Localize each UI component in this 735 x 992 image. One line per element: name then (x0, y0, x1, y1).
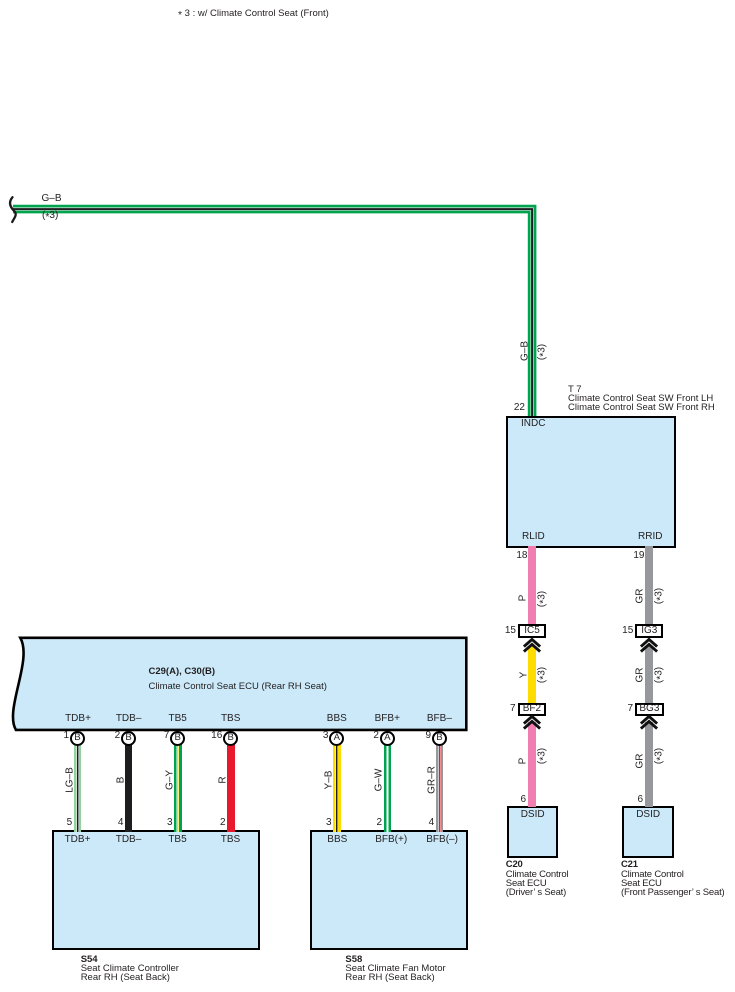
node B pin9 (432, 731, 447, 746)
S54 box (52, 830, 260, 950)
label (*3) (vertical wire) (537, 343, 546, 359)
label GR (635, 668, 644, 683)
wire P from BF2 to C20 (528, 722, 536, 807)
label G-W (375, 769, 384, 792)
label TB5 (C29) (158, 714, 198, 723)
label G-Y (165, 770, 174, 790)
S58 caption (345, 955, 445, 983)
label INDC (521, 419, 545, 428)
connector BF2 (518, 703, 547, 716)
junction chevron below BF2 (522, 714, 542, 732)
wire LG-B (74, 740, 82, 832)
label Y (519, 672, 528, 679)
pin 1 (47, 731, 69, 740)
node B pin1 (70, 731, 85, 746)
label GR-R (427, 766, 436, 794)
label BFB+ (C29) (367, 714, 407, 723)
wire R (227, 740, 235, 832)
wire GR from BG3 to C21 (645, 722, 653, 807)
pin 5 (S54) (50, 818, 72, 827)
label (*3) (537, 590, 546, 606)
connector BG3 (635, 703, 664, 716)
label BBS (C29) (317, 714, 357, 723)
C29/C30 subtitle (149, 682, 327, 691)
wire Y-B (333, 740, 341, 832)
pin 7 (147, 731, 169, 740)
C29/C30 title (149, 667, 216, 676)
label (*3) (654, 748, 663, 764)
pin 9 (409, 731, 431, 740)
pin 3 (S58) (310, 818, 332, 827)
wire GR from RRID to IG3 (645, 546, 653, 625)
pin 2 (S58) (360, 818, 382, 827)
pin 7 (BG3) (611, 704, 633, 713)
node B pin7 (170, 731, 185, 746)
label GR (635, 754, 644, 769)
node A pin2 (380, 731, 395, 746)
pin 16 (200, 731, 222, 740)
ECU C29/C30 box (wavy left edge) (0, 630, 480, 740)
connector IG3 (635, 624, 663, 638)
connector T7 title (568, 385, 715, 412)
label DSID (C20) (507, 810, 558, 819)
label LG-B (65, 767, 74, 793)
ECU C21 box (622, 806, 674, 858)
label GR (635, 588, 644, 603)
label TB5 (S54) (158, 835, 198, 844)
label TDB- (S54) (109, 835, 149, 844)
label TDB- (C29) (109, 714, 149, 723)
wire Y from IC5 to BF2 (528, 646, 537, 704)
connector IC5 (518, 624, 546, 638)
label B (116, 777, 125, 784)
pin 4 (S58) (412, 818, 434, 827)
label TBS (C29) (211, 714, 251, 723)
pin 15 (IC5) (494, 626, 516, 635)
pin 19 (623, 551, 645, 560)
pin 18 (506, 551, 528, 560)
break symbol (wire continues) (0, 185, 40, 235)
label (*3) (654, 666, 663, 682)
pin 2 (357, 731, 379, 740)
node A pin3 (329, 731, 344, 746)
label R (218, 777, 227, 784)
label RLID (522, 532, 545, 541)
label G-B (vertical wire) (520, 340, 529, 360)
node B pin16 (223, 731, 238, 746)
pin 15 (IG3) (611, 626, 633, 635)
pin 4 (S54) (101, 818, 123, 827)
junction chevron below IC5 (522, 637, 542, 655)
label (*3) (537, 666, 546, 682)
label G-B (horizontal) (42, 194, 62, 203)
junction chevron below IG3 (639, 637, 659, 655)
label TBS (S54) (211, 835, 251, 844)
wire GR from IG3 to BG3 (645, 646, 653, 704)
label (*3) (537, 748, 546, 764)
label P (519, 758, 528, 765)
junction chevron below BG3 (639, 714, 659, 732)
C21 caption (621, 860, 725, 897)
pin 2 (S54) (204, 818, 226, 827)
label TDB+ (S54) (58, 835, 98, 844)
node B pin2 (121, 731, 136, 746)
note w/ Climate Control Seat (Front) (178, 9, 329, 18)
C20 caption (506, 860, 569, 897)
pin 6 (C20) (504, 795, 526, 804)
label DSID (C21) (622, 810, 674, 819)
label RRID (638, 532, 662, 541)
pin 7 (BF2) (494, 704, 516, 713)
wire P from RLID to IC5 (528, 546, 536, 625)
pin 22 (503, 403, 525, 412)
pin 2 (98, 731, 120, 740)
S58 box (310, 830, 468, 950)
label (*3) (654, 588, 663, 604)
ECU C20 box (507, 806, 558, 858)
label TDB+ (C29) (58, 714, 98, 723)
wire B (125, 740, 133, 832)
label P (518, 595, 527, 602)
pin 3 (306, 731, 328, 740)
pin 3 (S54) (151, 818, 173, 827)
wire G-W (384, 740, 392, 832)
label BBS (S58) (317, 835, 357, 844)
wire GR-R (436, 740, 444, 832)
op block T7 Climate Control Seat SW box (506, 416, 677, 548)
S54 caption (81, 955, 179, 983)
wire G-Y (174, 740, 182, 832)
label BFB(-) (S58) (422, 835, 462, 844)
label BFB(+) (S58) (371, 835, 411, 844)
pin 6 (C21) (621, 795, 643, 804)
label BFB- (C29) (419, 714, 459, 723)
label Y-B (324, 771, 333, 790)
label (*3) (horizontal) (42, 211, 58, 220)
